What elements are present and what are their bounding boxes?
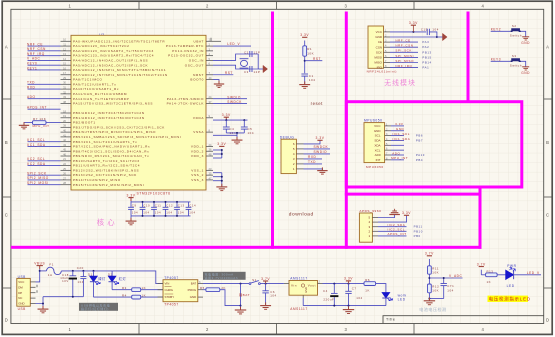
svg-text:OSC_IN: OSC_IN <box>189 59 204 63</box>
wire net APDS_INT <box>28 108 61 110</box>
U2 pin stubs <box>384 32 391 68</box>
ground VSSA <box>232 137 243 144</box>
svg-text:C7: C7 <box>352 286 357 290</box>
svg-text:reset: reset <box>311 101 324 106</box>
U4 pin stubs <box>385 126 391 160</box>
svg-text:Title: Title <box>386 318 395 322</box>
svg-text:10K: 10K <box>432 270 439 274</box>
svg-text:PB13/I2S2_CK/T1C1N/SPI2_SCK: PB13/I2S2_CK/T1C1N/SPI2_SCK <box>73 173 137 177</box>
svg-text:3.3V: 3.3V <box>300 33 309 37</box>
svg-text:LED: LED <box>398 298 406 302</box>
svg-text:MPU_INT: MPU_INT <box>391 156 408 160</box>
svg-text:R4: R4 <box>122 294 127 298</box>
wire SWDIO debug <box>304 153 331 155</box>
svg-text:R1: R1 <box>307 47 312 51</box>
svg-text:3.3V: 3.3V <box>344 277 353 281</box>
wire 3.3V output rail <box>323 283 365 285</box>
wire VSSA <box>213 134 237 136</box>
svg-text:VBUS: VBUS <box>34 262 45 266</box>
capacitor C12 <box>165 202 167 207</box>
svg-text:PWR: PWR <box>507 264 516 268</box>
ground decoupling rail <box>130 216 132 221</box>
power 3.7V divider <box>427 255 432 257</box>
svg-text:Switch: Switch <box>510 64 522 68</box>
svg-text:104: 104 <box>143 210 149 214</box>
svg-text:C14: C14 <box>189 204 196 208</box>
svg-text:3: 3 <box>345 3 348 8</box>
U1 left pin stubs and numbers <box>61 41 72 184</box>
svg-text:NRF_CSN: NRF_CSN <box>395 44 413 48</box>
wire crystal gnd <box>257 54 259 69</box>
svg-text:PB2/BOOT1: PB2/BOOT1 <box>73 121 96 125</box>
svg-text:2: 2 <box>206 327 209 332</box>
capacitor C3 <box>249 66 251 72</box>
wire to C71 <box>443 278 445 283</box>
wire net SPI2_MOSI <box>28 184 61 186</box>
wire VSS bus <box>221 173 223 187</box>
svg-text:PB9/SDIO_D5/I2C1_SDA/T4C4/CAN_: PB9/SDIO_D5/I2C1_SDA/T4C4/CAN_Tx <box>73 154 149 158</box>
svg-text:PB5/I2C1_SMBA/I2S3_SD/SPI3_MOS: PB5/I2C1_SMBA/I2S3_SD/SPI3_MOSI/T3C2/SPI… <box>73 135 181 139</box>
svg-text:104: 104 <box>270 294 276 298</box>
svg-text:VCC: VCC <box>376 30 383 34</box>
wire IIC1_SCL mpu <box>391 135 404 137</box>
svg-text:S2: S2 <box>512 24 517 28</box>
APDS section top line <box>345 193 482 196</box>
wire net KEY0 <box>28 64 61 66</box>
svg-text:ADO: ADO <box>27 95 36 99</box>
svg-text:PB8/T4C3/I2C1_SCL/SDIO_D4/CAN_: PB8/T4C3/I2C1_SCL/SDIO_D4/CAN_Rx <box>73 149 149 153</box>
svg-text:IIC2_SDA: IIC2_SDA <box>388 223 406 227</box>
svg-text:PA11/CAN_Rx/T1C4/USBDM: PA11/CAN_Rx/T1C4/USBDM <box>73 92 127 96</box>
capacitor C18 <box>72 271 74 276</box>
svg-text:IIC1_SCL: IIC1_SCL <box>27 138 45 142</box>
APDS pin stubs <box>372 218 378 236</box>
svg-text:R6: R6 <box>365 278 370 282</box>
svg-text:GND: GND <box>304 287 308 293</box>
svg-text:DP: DP <box>18 291 22 295</box>
svg-text:PA3/ADC123_IN3/USART2_Rx/T5C4/: PA3/ADC123_IN3/USART2_Rx/T5C4/T2C4 <box>73 54 154 58</box>
wire R4 to STDBY <box>141 296 163 298</box>
wire KEY2 to ground <box>521 31 526 36</box>
svg-text:PB13: PB13 <box>422 50 431 54</box>
LED D3 work <box>382 293 389 298</box>
ground AMS output <box>348 306 350 309</box>
resistor R13 <box>486 273 498 277</box>
wire R3 to CHRG <box>141 289 163 291</box>
svg-text:SWDCK: SWDCK <box>314 145 329 149</box>
svg-text:PB4/NJTRST/SPI3_MISO/T3C1/SPI1: PB4/NJTRST/SPI3_MISO/T3C1/SPI1_MISO <box>73 130 156 134</box>
svg-text:C71: C71 <box>447 284 454 288</box>
ground KEY3 (earth bars) <box>522 67 529 70</box>
power 3.3V for VDD pins <box>219 145 224 147</box>
wire KEY3 to ground <box>521 61 526 66</box>
power 3.3V debug <box>317 139 322 141</box>
ground reset <box>299 81 310 88</box>
svg-text:1A: 1A <box>48 273 53 277</box>
title block <box>383 316 544 324</box>
svg-text:GND: GND <box>521 41 530 45</box>
capacitor C13 <box>176 202 178 207</box>
wire APDS 3.3V <box>378 215 407 222</box>
svg-text:VIN: VIN <box>165 282 170 286</box>
wire vdda caps to ground <box>226 132 244 134</box>
svg-text:4: 4 <box>482 3 485 8</box>
svg-text:PA7/ADC12_IN7/SPI1_MOSI/T1C1N/: PA7/ADC12_IN7/SPI1_MOSI/T1C1N/T3C2/T1C1N <box>73 73 168 77</box>
svg-text:绿灯: 绿灯 <box>98 276 106 281</box>
wire ADO mpu <box>391 154 404 156</box>
svg-text:VDD_1: VDD_1 <box>191 145 204 149</box>
svg-text:1K: 1K <box>487 280 492 284</box>
wire NRF GND <box>390 36 437 38</box>
wire BOOT0 to ground <box>213 80 219 84</box>
svg-text:3.3V: 3.3V <box>222 113 231 117</box>
wire BAT rail <box>203 283 250 285</box>
wire R7 to pin <box>46 122 61 124</box>
svg-text:SPI_SCK: SPI_SCK <box>395 49 412 53</box>
power 3.3V for VDDA <box>224 116 229 118</box>
svg-text:C: C <box>546 213 550 218</box>
svg-text:SPI2_MISO: SPI2_MISO <box>27 176 49 180</box>
wire VDDA rail <box>213 119 248 121</box>
connector APDS body <box>359 213 372 242</box>
svg-text:AD0: AD0 <box>375 153 381 157</box>
svg-text:PB3/JTDO/SPI3_SCK/I2S3_CK/T2C2: PB3/JTDO/SPI3_SCK/I2S3_CK/T2C2/SPI1_SCK <box>73 125 165 129</box>
wire net NRF_CSN <box>390 46 418 48</box>
wire MPU_INT mpu <box>391 159 404 161</box>
wire net V_ADC <box>28 59 61 61</box>
svg-text:GND: GND <box>375 35 383 39</box>
section divider vertical line 1 <box>271 12 274 249</box>
power 3.7V pwr led <box>479 266 484 268</box>
wire net IIC2_SCL <box>378 230 407 232</box>
svg-text:PA13-JTMS-SWDIO: PA13-JTMS-SWDIO <box>167 97 204 101</box>
capacitor C15 <box>426 29 428 35</box>
wire net KEY1 <box>28 69 61 71</box>
svg-text:NRF_IRQ: NRF_IRQ <box>395 64 412 68</box>
svg-text:PB11: PB11 <box>414 225 423 229</box>
svg-text:1K: 1K <box>365 288 370 292</box>
svg-text:NC: NC <box>18 296 22 300</box>
resistor R6 <box>364 282 376 286</box>
wire R13 to LED <box>497 274 506 276</box>
power 3.7V after switch <box>263 280 268 282</box>
wire AMS gnd tab <box>302 298 304 306</box>
svg-text:3.3V: 3.3V <box>402 211 411 215</box>
wire NRST <box>213 74 233 76</box>
wire net SPI_MISO <box>390 62 418 64</box>
svg-text:RXD: RXD <box>308 155 317 159</box>
svg-text:IIC2_SCL: IIC2_SCL <box>388 228 405 232</box>
crystal Y1 <box>241 60 248 66</box>
wire VBUS to USB VCC <box>39 266 41 270</box>
ground crystal <box>263 65 268 72</box>
svg-text:CHRG: CHRG <box>165 288 174 292</box>
svg-text:3: 3 <box>199 281 201 284</box>
wire net NRF_CE <box>28 45 61 47</box>
svg-text:104: 104 <box>447 289 453 293</box>
svg-text:电压检测指示LED: 电压检测指示LED <box>489 296 531 303</box>
svg-text:NRST: NRST <box>193 73 204 77</box>
svg-text:S3: S3 <box>512 54 517 58</box>
wire IIC1_SDA mpu <box>391 139 404 141</box>
wire vbus rail to fuse <box>40 270 47 272</box>
ground USB <box>38 306 49 313</box>
svg-text:B: B <box>5 140 8 145</box>
svg-text:12P: 12P <box>254 50 261 54</box>
svg-text:指示灯(红灯绿灯): 指示灯(红灯绿灯) <box>81 306 109 311</box>
svg-text:NRF_IRQ: NRF_IRQ <box>27 52 45 56</box>
note box charge current <box>203 272 246 280</box>
svg-text:PA8/T1C1/MCO: PA8/T1C1/MCO <box>73 78 103 82</box>
resistor R12 <box>428 284 432 293</box>
svg-text:PC14-OSC32_IN: PC14-OSC32_IN <box>172 49 204 53</box>
svg-text:104: 104 <box>166 210 172 214</box>
svg-text:PROG: PROG <box>188 288 197 292</box>
wire net SPI2_SCK <box>28 174 61 176</box>
svg-text:PB11/USART3_Rx/I2C2_SDA/T2C4: PB11/USART3_Rx/I2C2_SDA/T2C4 <box>73 164 140 168</box>
svg-text:UBAT: UBAT <box>193 39 204 43</box>
svg-text:3.3V: 3.3V <box>217 142 226 146</box>
svg-text:KEY1: KEY1 <box>27 66 37 70</box>
svg-text:PA2: PA2 <box>422 45 429 49</box>
svg-text:PB6/I2C1_SCL/T4C1/USART1_Tx: PB6/I2C1_SCL/T4C1/USART1_Tx <box>73 140 137 144</box>
ground APDS (earth dome) <box>389 209 400 215</box>
section divider vertical line 3 <box>467 12 470 103</box>
svg-text:3.3V: 3.3V <box>127 193 136 197</box>
svg-text:PB0: PB0 <box>414 234 421 238</box>
svg-text:GND: GND <box>374 129 382 133</box>
capacitor C4 output <box>333 284 335 294</box>
svg-text:PA1/ADC123_IN1/T5C2/T2C2: PA1/ADC123_IN1/T5C2/T2C2 <box>73 44 129 48</box>
svg-text:D: D <box>546 318 550 323</box>
svg-text:SDA: SDA <box>374 139 380 143</box>
wire XCL stub <box>391 149 404 151</box>
svg-text:A: A <box>546 45 549 50</box>
power 3.3V NRF <box>411 24 416 26</box>
svg-text:AMS1117: AMS1117 <box>290 276 307 280</box>
svg-text:104: 104 <box>155 210 161 214</box>
svg-text:C4: C4 <box>323 289 328 293</box>
svg-text:104: 104 <box>248 131 254 135</box>
svg-text:PA9/T1C2/USART1_Tx: PA9/T1C2/USART1_Tx <box>73 82 116 86</box>
svg-text:APDS_INT: APDS_INT <box>27 105 47 109</box>
wire KEY2 <box>491 30 510 32</box>
svg-text:LED: LED <box>507 284 515 288</box>
wire divider gnd <box>428 293 430 299</box>
svg-text:CE: CE <box>378 40 382 44</box>
resistor R11 <box>428 259 430 266</box>
wire RST node <box>304 56 306 73</box>
connector J1 DEBUG body <box>281 139 296 173</box>
wire net IIC2_SCL <box>28 160 61 162</box>
svg-text:C12: C12 <box>166 204 173 208</box>
capacitor C2 <box>249 51 251 57</box>
ground C6 <box>260 302 271 309</box>
power 3.3V output <box>346 280 351 282</box>
svg-text:C2: C2 <box>244 50 249 54</box>
svg-text:无线模块: 无线模块 <box>384 78 416 87</box>
wire net SPI2_MISO <box>28 179 61 181</box>
svg-text:USB: USB <box>18 307 26 311</box>
svg-text:C10: C10 <box>143 204 150 208</box>
svg-text:IIC1_SDA: IIC1_SDA <box>27 143 46 147</box>
svg-text:R5: R5 <box>200 286 205 290</box>
wire OSC_IN branch <box>213 54 258 60</box>
capacitor C71 <box>441 283 447 285</box>
wire C1 to ground <box>304 76 306 84</box>
svg-text:MPU6050: MPU6050 <box>364 118 383 122</box>
resistor R7 <box>33 121 47 125</box>
svg-text:LED_V: LED_V <box>527 271 540 275</box>
svg-text:红灯: 红灯 <box>119 276 127 281</box>
svg-text:VSS_3: VSS_3 <box>191 178 204 182</box>
wire MPU GND <box>391 130 404 132</box>
ground VSS pins <box>216 184 227 191</box>
resistor R5 <box>203 289 206 291</box>
svg-text:4: 4 <box>482 327 485 332</box>
svg-text:INT: INT <box>376 158 381 162</box>
wire net NRF_CE <box>390 41 418 43</box>
wire APDS gnd <box>378 215 395 218</box>
wire OSC_OUT branch <box>213 65 258 69</box>
svg-text:PA1: PA1 <box>422 66 429 70</box>
svg-text:VSS_1: VSS_1 <box>191 168 204 172</box>
svg-text:PA14-JTCK-SWCLK: PA14-JTCK-SWCLK <box>167 102 205 106</box>
svg-text:104: 104 <box>356 296 362 300</box>
svg-text:核心: 核心 <box>97 218 118 227</box>
svg-text:SCL: SCL <box>375 134 381 138</box>
wire net APDS_INT <box>378 235 407 237</box>
power 3.3V reset <box>302 36 307 38</box>
svg-text:2K: 2K <box>221 286 226 290</box>
svg-text:IIC2_SDA: IIC2_SDA <box>27 162 46 166</box>
svg-text:STM32F103C8T6: STM32F103C8T6 <box>137 192 171 196</box>
capacitor C7 <box>348 284 350 292</box>
svg-text:VCC: VCC <box>374 124 381 128</box>
resistor R1 <box>304 41 306 46</box>
svg-text:PB6: PB6 <box>416 134 423 138</box>
svg-text:KEY0: KEY0 <box>27 62 37 66</box>
svg-text:MISO: MISO <box>374 61 382 65</box>
svg-text:2: 2 <box>319 281 321 284</box>
svg-text:MPU_INT: MPU_INT <box>33 124 50 128</box>
svg-text:PA0-WKUP/ADC123_IN0/T2C1ETR/T5: PA0-WKUP/ADC123_IN0/T2C1ETR/T5C1/T8ETR <box>73 39 165 43</box>
svg-text:B: B <box>546 140 549 145</box>
wire decoupling bottom rail <box>131 215 191 217</box>
wire net TXD <box>28 83 61 85</box>
svg-text:Switch: Switch <box>510 34 522 38</box>
svg-text:R7 10K: R7 10K <box>33 117 46 121</box>
connector USB body <box>17 278 31 306</box>
svg-text:12P: 12P <box>254 70 261 74</box>
wire usb gnd bus <box>36 304 44 309</box>
svg-text:3.7V: 3.7V <box>477 262 486 266</box>
svg-text:104: 104 <box>309 78 316 82</box>
wire SWDIO <box>213 98 247 100</box>
svg-text:C: C <box>5 213 9 218</box>
svg-text:R13: R13 <box>487 270 494 274</box>
power 3.3V decoupling rail <box>128 197 133 199</box>
wire net NRF_IRQ <box>28 55 61 57</box>
IC U6 AMS1117 body <box>289 281 318 296</box>
ground KEY2 (earth bars) <box>522 37 529 40</box>
USB pin stubs <box>30 282 37 304</box>
svg-text:TXD: TXD <box>27 81 35 85</box>
resistor R3 <box>112 289 132 291</box>
svg-text:PA4/ADC12_IN4/DAC_OUT1/SPI1_NS: PA4/ADC12_IN4/DAC_OUT1/SPI1_NSS <box>73 59 148 63</box>
svg-text:适用3.7V/2200mAh: 适用3.7V/2200mAh <box>205 275 239 280</box>
capacitor C11 <box>153 202 155 207</box>
svg-text:PB12/I2S2_WS/T1BKIN/SPI2_NSS: PB12/I2S2_WS/T1BKIN/SPI2_NSS <box>73 168 139 172</box>
U1 right pin stubs and numbers <box>206 38 221 180</box>
svg-text:PB10/USART3_Tx/I2C2_SCL/T2C3: PB10/USART3_Tx/I2C2_SCL/T2C3 <box>73 159 140 163</box>
svg-text:XCL: XCL <box>375 148 381 152</box>
svg-text:VDD_2: VDD_2 <box>191 149 204 153</box>
svg-text:DM: DM <box>18 285 23 289</box>
svg-text:NRF_CSN: NRF_CSN <box>27 47 46 51</box>
svg-text:C15: C15 <box>421 28 428 32</box>
capacitor C4 (vdda) <box>225 120 227 127</box>
svg-text:104: 104 <box>189 210 195 214</box>
svg-text:PB0/ADC12_IN8/T3C3/T8C2N/T1C2N: PB0/ADC12_IN8/T3C3/T8C2N/T1C2N <box>73 111 145 115</box>
wire KEY3 <box>491 60 510 62</box>
capacitor C14 <box>188 202 190 207</box>
svg-text:RXD: RXD <box>27 85 36 89</box>
battery node wire <box>240 284 242 306</box>
svg-text:LED_V: LED_V <box>227 42 240 46</box>
svg-text:D1: D1 <box>88 272 93 276</box>
module U2 NRF24L01 body <box>368 26 384 68</box>
wire LED_V <box>213 45 251 47</box>
IC U1 STM32 body <box>71 35 206 190</box>
wire SWDCK debug <box>304 148 331 150</box>
wire rail to TP4057 VIN <box>112 271 163 284</box>
ground debug <box>317 167 327 174</box>
wire work led to gnd bus <box>385 298 387 305</box>
wire V_ADC node <box>428 274 430 284</box>
ground BOOT0 <box>214 81 224 88</box>
svg-text:GND: GND <box>190 295 196 299</box>
svg-text:IIC2_SCL: IIC2_SCL <box>27 157 45 161</box>
svg-text:电池电压检测: 电池电压检测 <box>419 306 446 312</box>
svg-text:SPI2_MOSI: SPI2_MOSI <box>27 181 49 185</box>
svg-text:SPI2_SCK: SPI2_SCK <box>27 171 47 175</box>
svg-text:PA12/CAN_Tx/T1ETR/USBDP: PA12/CAN_Tx/T1ETR/USBDP <box>73 97 129 101</box>
wire SWDCK <box>213 102 247 104</box>
svg-text:104: 104 <box>178 210 184 214</box>
svg-text:PA2/ADC123_IN2/USART2_Tx/T5C3/: PA2/ADC123_IN2/USART2_Tx/T5C3/T2C3 <box>73 49 154 53</box>
svg-text:C13: C13 <box>178 204 185 208</box>
U5 pin stubs <box>158 284 204 298</box>
wire to R13 <box>480 270 482 275</box>
svg-text:C9: C9 <box>132 204 137 208</box>
svg-text:2: 2 <box>206 3 209 8</box>
svg-text:PA6/ADC12_IN6/SPI1_MISO/T3T1/T: PA6/ADC12_IN6/SPI1_MISO/T3T1/T8BKIN/T1C1 <box>73 68 166 72</box>
svg-text:IIC1_SCL: IIC1_SCL <box>393 132 410 136</box>
svg-text:C3: C3 <box>244 70 249 74</box>
wire net SPI_SCK <box>390 51 418 53</box>
wire decoupling top rail <box>131 201 191 203</box>
svg-text:10K: 10K <box>432 289 439 293</box>
resistor R4 <box>94 296 132 298</box>
power 3.3V APDS <box>404 214 409 216</box>
ground for R7 <box>24 122 33 124</box>
svg-text:VDD_3: VDD_3 <box>191 154 204 158</box>
svg-text:ADO: ADO <box>392 151 400 155</box>
svg-text:220uF: 220uF <box>323 298 334 302</box>
IC U5 TP4057 body <box>163 280 198 302</box>
svg-text:TXD: TXD <box>308 160 316 164</box>
